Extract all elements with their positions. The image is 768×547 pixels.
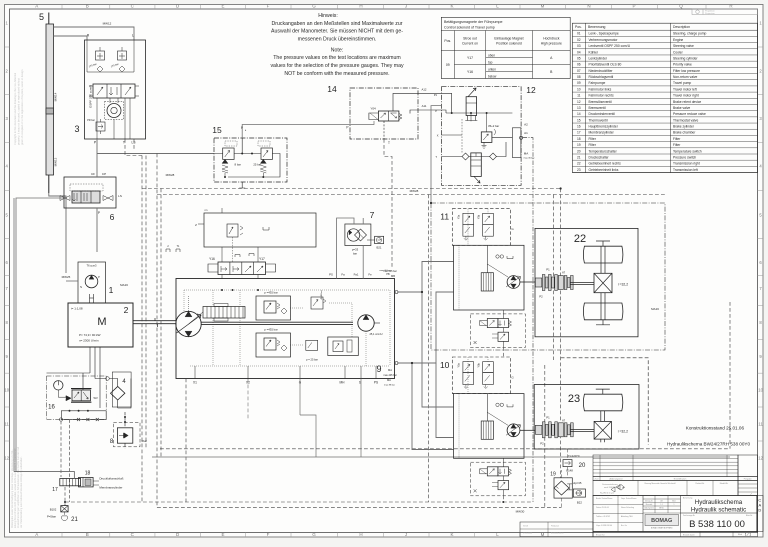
svg-text:Stroe out: Stroe out	[463, 37, 477, 41]
svg-text:Brake zylinder: Brake zylinder	[673, 125, 695, 129]
travel motor 10 main box	[454, 394, 525, 459]
engine tank lines	[90, 347, 100, 408]
svg-text:20: 20	[577, 149, 581, 153]
pressure regulator 35+2bar	[481, 132, 492, 143]
svg-text:MW12: MW12	[103, 22, 112, 26]
svg-text:19: 19	[577, 143, 581, 147]
svg-text:Y16: Y16	[209, 257, 215, 261]
small valve left of charge group	[306, 340, 318, 350]
svg-text:MA: MA	[388, 368, 392, 372]
svg-text:B102: B102	[50, 508, 57, 512]
transmission 22 box	[535, 228, 638, 336]
svg-text:max.40 bar: max.40 bar	[380, 269, 391, 272]
svg-text:P=5bar: P=5bar	[47, 515, 56, 519]
charge relief group	[328, 337, 359, 356]
svg-text:L: L	[132, 34, 134, 38]
pump control top box	[204, 213, 316, 247]
steering valve shock valves	[96, 51, 105, 60]
hand pump	[466, 97, 477, 116]
svg-text:MW30: MW30	[516, 510, 525, 514]
svg-text:11: 11	[5, 422, 10, 427]
svg-text:T=120°C: T=120°C	[568, 454, 581, 458]
svg-text:S: S	[80, 285, 82, 289]
pump internal dotted connections	[188, 296, 190, 311]
svg-text:T: T	[388, 141, 390, 145]
svg-text:P: P	[98, 275, 100, 279]
svg-text:02: 02	[577, 38, 581, 42]
comp12 wires	[442, 93, 513, 156]
brake cylinder 17	[60, 479, 81, 486]
title block bottom band	[593, 532, 758, 537]
dashed long horizontals bottom	[160, 448, 730, 450]
svg-text:Y04: Y04	[370, 107, 376, 111]
svg-text:CP: CP	[102, 172, 106, 176]
svg-text:Modell-Nr.: Modell-Nr.	[720, 482, 729, 485]
svg-text:Filter: Filter	[673, 137, 681, 141]
svg-text:PR bar: PR bar	[87, 119, 95, 122]
svg-text:15: 15	[212, 125, 222, 135]
svg-text:Cooler: Cooler	[673, 50, 684, 54]
svg-text:WV: WV	[94, 396, 98, 400]
Y04 spring	[399, 114, 402, 120]
dashed lines down from 16 to 17	[60, 421, 62, 477]
brake valve 13 of motor 11	[471, 314, 526, 348]
hydrostatic line A to motors	[398, 363, 454, 450]
svg-text:MH: MH	[340, 381, 346, 385]
svg-text:A11: A11	[422, 104, 427, 108]
svg-text:14: 14	[577, 112, 581, 116]
svg-text:Fa: Fa	[341, 273, 345, 277]
svg-text:11: 11	[577, 94, 581, 98]
svg-text:Y17: Y17	[467, 56, 473, 60]
svg-text:10: 10	[440, 360, 450, 370]
svg-text:Auswahl der Manometer. Sie müs: Auswahl der Manometer. Sie müssen NICHT …	[271, 29, 403, 35]
transmission 22 wheel bottom	[583, 303, 623, 320]
svg-text:Fahrpumpe: Fahrpumpe	[589, 81, 606, 85]
wire Pe riser to comp14	[242, 125, 370, 139]
small control valve	[311, 297, 323, 309]
svg-text:CAD-System: CAD-System	[644, 507, 654, 510]
svg-text:45/48 bar: 45/48 bar	[320, 290, 323, 300]
svg-text:Ersatz für: Ersatz für	[596, 533, 605, 536]
charge pump 1	[78, 262, 106, 303]
svg-text:10: 10	[577, 87, 581, 91]
svg-text:Datum 25.01.06: Datum 25.01.06	[596, 506, 609, 509]
svg-text:Druckangaben an den Meßstellen: Druckangaben an den Meßstellen sind Maxi…	[272, 21, 403, 27]
hydrostatic line B to motors	[398, 262, 454, 293]
cooler 4	[111, 386, 125, 400]
svg-text:27.01.2006: 27.01.2006	[523, 533, 532, 535]
svg-text:1:1: 1:1	[660, 504, 662, 506]
svg-text:A2: A2	[524, 122, 528, 126]
coupling ribs	[535, 425, 542, 434]
svg-text:p =435 bar: p =435 bar	[264, 328, 278, 332]
svg-text:Getriebeeinheit links: Getriebeeinheit links	[589, 168, 619, 172]
servo cylinder	[203, 307, 245, 319]
motor 10 internal dotted	[459, 357, 488, 458]
svg-text:Einbaulage Magnet: Einbaulage Magnet	[494, 37, 523, 41]
svg-text:Lenkzylinder: Lenkzylinder	[589, 56, 608, 60]
svg-text:property. It may not be used,: property. It may not be used, copied or …	[17, 78, 21, 145]
svg-text:top: top	[488, 61, 493, 65]
transmission 23 gear	[594, 421, 611, 439]
dashed verticals right of pump	[552, 195, 554, 361]
svg-text:11: 11	[440, 212, 449, 222]
thermostat valve 15 box	[214, 138, 287, 182]
svg-text:M: M	[97, 316, 106, 328]
svg-text:F: F	[267, 532, 270, 537]
svg-text:15: 15	[577, 118, 581, 122]
wire comp6 P down	[96, 208, 98, 252]
svg-text:17: 17	[52, 487, 58, 493]
coupling ribs	[535, 278, 542, 287]
svg-text:Membranzylinder: Membranzylinder	[589, 131, 615, 135]
svg-text:Abteilung TEH: Abteilung TEH	[621, 515, 633, 518]
svg-text:MA: MA	[387, 378, 391, 382]
svg-text:Brake valve: Brake valve	[673, 106, 690, 110]
svg-text:A: A	[35, 532, 38, 537]
svg-text:Masstab: Masstab	[646, 503, 652, 506]
travel motor 11 output shaft	[520, 281, 535, 283]
svg-text:i =32,2: i =32,2	[618, 429, 628, 433]
svg-text:Kühler: Kühler	[589, 50, 599, 54]
sensor B22	[573, 489, 585, 497]
svg-text:Current on: Current on	[462, 41, 478, 45]
relief valve B	[256, 333, 291, 357]
svg-text:values for the selection of th: values for the selection of the pressure…	[270, 63, 404, 69]
svg-text:Hydraulikschema BW24/27RH 538: Hydraulikschema BW24/27RH 538 00Y0	[667, 442, 750, 447]
svg-text:Temperature switch: Temperature switch	[673, 149, 702, 153]
svg-text:Lenkventil OSPF 250 com/U: Lenkventil OSPF 250 com/U	[589, 44, 631, 48]
svg-text:Bremslöseventil: Bremslöseventil	[589, 100, 613, 104]
Y17 solenoid	[266, 264, 276, 272]
charge pump circle	[358, 315, 374, 331]
svg-text:Travel motor left: Travel motor left	[673, 87, 697, 91]
pump control dashed pilots	[232, 237, 234, 262]
travel motor 11 cartridge valves	[463, 213, 474, 224]
svg-text:04: 04	[577, 50, 581, 54]
inter-section dashed connectors	[502, 348, 504, 358]
check valve diamonds	[97, 66, 103, 72]
svg-text:Druckschalter: Druckschalter	[589, 155, 610, 159]
steering directional valve	[93, 84, 135, 98]
svg-text:CF: CF	[91, 172, 95, 176]
thermo internal wires	[214, 154, 280, 178]
svg-text:Priority valve: Priority valve	[673, 63, 692, 67]
svg-text:Zeichnungs-Nr.: Zeichnungs-Nr.	[683, 515, 696, 517]
svg-text:F: F	[267, 4, 270, 9]
travel motor 10 cartridge valves	[463, 362, 474, 373]
wire P comp3 to comp6	[96, 139, 98, 177]
svg-text:der Patenterteilung oder Gebra: der Patenterteilung oder Gebrauchsmuster…	[20, 456, 23, 528]
svg-text:Y5b: Y5b	[477, 214, 480, 219]
transmission 23 axle	[600, 411, 602, 422]
svg-text:Y16: Y16	[467, 70, 473, 74]
svg-text:18: 18	[577, 137, 581, 141]
brake valve 16	[72, 390, 90, 401]
wire comp6 LS left	[16, 198, 75, 472]
brake chamber 18	[79, 478, 94, 487]
svg-text:A1: A1	[524, 131, 528, 135]
svg-text:35+2 bar: 35+2 bar	[488, 124, 499, 128]
accumulator	[471, 153, 482, 177]
svg-text:18: 18	[85, 471, 91, 477]
engine 2 box	[68, 303, 133, 347]
steering cylinder 5	[46, 24, 54, 175]
gauge link arrow	[58, 390, 71, 401]
svg-text:Urspr. B 538 018 00: Urspr. B 538 018 00	[596, 525, 612, 527]
transmission 22 gear	[594, 273, 612, 292]
dashed lines horizontal machine boundary	[142, 188, 561, 190]
shaft through pump	[201, 321, 353, 323]
svg-text:P2: P2	[539, 295, 543, 299]
travel motor 10 output shaft	[520, 429, 535, 431]
svg-text:7: 7	[370, 210, 375, 220]
svg-text:MA: MA	[524, 152, 529, 156]
svg-text:p =435 bar: p =435 bar	[264, 291, 278, 295]
svg-text:MA16: MA16	[651, 307, 659, 311]
svg-text:A12: A12	[422, 87, 427, 91]
svg-text:Thermoventil: Thermoventil	[589, 118, 608, 122]
svg-text:Getriebeeinheit rechts: Getriebeeinheit rechts	[589, 162, 622, 166]
svg-text:X1: X1	[193, 381, 197, 385]
svg-text:Thermostat valve: Thermostat valve	[673, 118, 698, 122]
svg-text:6: 6	[110, 212, 115, 222]
svg-text:17: 17	[577, 131, 581, 135]
manifold under 16	[61, 411, 106, 420]
svg-text:Filter: Filter	[589, 137, 597, 141]
pump drive shaft	[89, 294, 91, 303]
svg-text:P: P	[346, 126, 348, 130]
travel motor 11 gauge ports	[496, 255, 499, 258]
travel motor 11 rotary group	[507, 276, 520, 289]
svg-text:23: 23	[577, 168, 581, 172]
svg-text:25 bar: 25 bar	[253, 163, 261, 167]
svg-text:Temperaturschalter: Temperaturschalter	[589, 149, 618, 153]
svg-text:08: 08	[577, 75, 581, 79]
filter 7 box	[345, 224, 371, 246]
revision header row	[593, 477, 738, 481]
svg-text:12: 12	[4, 456, 9, 461]
svg-text:MA16: MA16	[120, 283, 128, 287]
svg-text:1: 1	[674, 504, 675, 506]
wire to thermo valve	[97, 153, 214, 155]
svg-text:Rückschlagventil: Rückschlagventil	[589, 75, 614, 79]
engine output shaft to travel pump	[133, 320, 176, 322]
brake release device 12 box	[442, 87, 522, 186]
dashed vertical x390	[384, 139, 392, 268]
svg-text:X: X	[437, 134, 439, 138]
svg-text:i= 1:1,08: i= 1:1,08	[71, 307, 83, 311]
svg-text:Travel motor right: Travel motor right	[673, 94, 699, 98]
relief valve A	[256, 296, 291, 320]
gauge circle 16	[54, 381, 63, 390]
travel motor 10 speed sensor	[481, 421, 493, 439]
svg-text:09: 09	[577, 81, 581, 85]
svg-text:P1: P1	[546, 268, 550, 272]
svg-text:N: N	[587, 4, 590, 9]
svg-text:P: P	[435, 109, 437, 113]
svg-text:Ersetzt durch: Ersetzt durch	[683, 533, 695, 536]
svg-text:09: 09	[446, 63, 450, 67]
svg-text:Pos.: Pos.	[575, 25, 582, 29]
svg-text:Gepr. Datum/Name: Gepr. Datum/Name	[621, 497, 636, 500]
svg-text:H: H	[359, 4, 362, 9]
steering valve 3 (OSPF 250) box	[85, 40, 146, 139]
svg-text:Membranzylinder: Membranzylinder	[99, 486, 122, 490]
svg-text:Konstruktionsstand 25.01.06: Konstruktionsstand 25.01.06	[686, 426, 745, 431]
comp12 right ports	[512, 128, 521, 158]
transmission 23 wheel	[583, 394, 622, 411]
svg-text:i =32,2: i =32,2	[618, 283, 628, 287]
small cell left of title block	[520, 522, 593, 537]
svg-text:Rohteil-Nr.: Rohteil-Nr.	[696, 482, 705, 485]
cooler side lines	[112, 372, 131, 407]
wires filter 7	[337, 218, 354, 279]
approval band	[593, 481, 738, 496]
svg-text:25,1 ccm/U: 25,1 ccm/U	[369, 332, 382, 336]
parts list table	[572, 23, 757, 172]
dashed line bundle vertical left	[141, 156, 143, 503]
svg-text:1: 1	[109, 285, 114, 295]
svg-text:K: K	[450, 4, 453, 9]
check diamonds comp12	[462, 153, 469, 160]
svg-text:8 bar: 8 bar	[235, 163, 241, 167]
motor 11 internal dotted	[459, 209, 488, 310]
svg-text:D: D	[758, 508, 761, 513]
svg-text:Druckminderventil: Druckminderventil	[589, 112, 616, 116]
svg-text:grant of occupied or to the re: grant of occupied or to the registration…	[20, 69, 24, 145]
svg-text:M: M	[541, 4, 545, 9]
svg-text:G: G	[312, 532, 316, 537]
svg-text:1 / 1: 1 / 1	[745, 533, 751, 537]
svg-text:Hydraulik schematic: Hydraulik schematic	[691, 507, 746, 514]
filter 19 lines	[561, 470, 563, 478]
svg-text:Plotdatum: Plotdatum	[551, 525, 560, 528]
svg-text:12: 12	[577, 100, 581, 104]
master brake valve 16 boundary	[47, 376, 107, 420]
transmission 22 wheel top	[583, 246, 623, 263]
main pump rotary group	[176, 311, 201, 336]
svg-text:The pressure values on the tes: The pressure values on the test location…	[273, 55, 400, 61]
projection symbol cell	[692, 9, 758, 15]
svg-text:12: 12	[526, 85, 536, 95]
svg-text:Y17: Y17	[259, 257, 265, 261]
svg-text:Prioritätsventil OLS 80: Prioritätsventil OLS 80	[589, 63, 622, 67]
BOMAG logo	[645, 515, 679, 526]
svg-text:B 538 110 00: B 538 110 00	[689, 519, 745, 530]
svg-text:13: 13	[577, 106, 581, 110]
svg-text:03: 03	[577, 44, 581, 48]
dashed pilot boxes comp15	[225, 141, 237, 146]
svg-text:Druckluftanschluß: Druckluftanschluß	[99, 477, 123, 481]
svg-text:10: 10	[758, 388, 763, 393]
priority valve spool	[72, 191, 100, 203]
svg-text:Freimasstoleranz: Freimasstoleranz	[602, 483, 617, 486]
pressure switch 21 (B102)	[61, 506, 68, 512]
svg-text:Projektion: Projektion	[705, 10, 716, 13]
svg-text:MW14: MW14	[54, 92, 58, 101]
svg-text:PB: PB	[386, 273, 390, 276]
wire to brake cylinder	[14, 472, 74, 479]
svg-text:Steering cylinder: Steering cylinder	[673, 56, 698, 60]
brake reduce valve of motor 10	[498, 481, 509, 490]
wire cylinder-R to valve port R	[54, 36, 88, 40]
machine boundary around motor 11 + transmission 22	[431, 203, 665, 350]
svg-text:Filter low pressure: Filter low pressure	[673, 69, 700, 73]
svg-text:ME10: ME10	[659, 508, 663, 510]
svg-text:21: 21	[577, 155, 581, 159]
svg-text:10: 10	[4, 388, 9, 393]
svg-text:Transmission left: Transmission left	[673, 168, 698, 172]
svg-text:22: 22	[577, 162, 581, 166]
sensor B21	[375, 236, 384, 243]
svg-text:Vertell: Vertell	[523, 525, 529, 528]
svg-text:Steering valve: Steering valve	[673, 44, 694, 48]
svg-text:6bar: 6bar	[142, 439, 148, 443]
svg-text:P: P	[98, 211, 100, 215]
svg-text:Q: Q	[679, 4, 683, 9]
svg-text:unten: unten	[488, 68, 496, 72]
travel motor 11 solenoid box	[452, 209, 510, 246]
gerotor metering unit	[107, 104, 121, 118]
svg-text:PS: PS	[329, 273, 333, 277]
svg-text:Zchngs-Gr.: Zchngs-Gr.	[645, 500, 654, 503]
main title block	[593, 496, 758, 532]
transmission 23 box	[534, 385, 639, 450]
svg-text:Zust: Zust	[595, 478, 599, 481]
svg-text:oben: oben	[488, 54, 495, 58]
dashed T-line from comp3	[125, 139, 142, 156]
svg-text:Blatt-Nr.: Blatt-Nr.	[746, 514, 753, 517]
travel motor 10 solenoid box	[452, 357, 510, 394]
svg-text:B: B	[86, 532, 89, 537]
svg-text:Bearb. Datum/Name: Bearb. Datum/Name	[596, 497, 612, 500]
svg-text:07: 07	[577, 69, 581, 73]
svg-text:Hauptbremszylinder: Hauptbremszylinder	[589, 125, 619, 129]
brake valve 13 of motor 10	[471, 462, 526, 496]
svg-text:Brake chamber: Brake chamber	[673, 131, 696, 135]
svg-text:01: 01	[577, 32, 581, 36]
CAD column	[757, 496, 764, 532]
svg-text:Niederdruckfilter: Niederdruckfilter	[589, 69, 614, 73]
svg-text:A: A	[35, 4, 38, 9]
svg-text:Pressure switch: Pressure switch	[673, 155, 696, 159]
svg-text:AT: AT	[562, 271, 566, 275]
svg-text:Y5b: Y5b	[477, 363, 480, 368]
svg-text:Ra-Werte in µm: Ra-Werte in µm	[600, 492, 614, 495]
svg-text:J: J	[405, 4, 407, 9]
svg-text:B: B	[86, 4, 89, 9]
machine boundary around motor 10 + transmission 23	[561, 358, 649, 445]
svg-text:MW28: MW28	[410, 189, 419, 193]
svg-text:below: below	[488, 75, 497, 79]
svg-text:BOMAG GMBH BOPPARD: BOMAG GMBH BOPPARD	[651, 527, 673, 530]
wire rod bottom to supply	[49, 193, 66, 252]
title block revision table	[593, 455, 738, 477]
travel pump 9 main box	[176, 279, 395, 379]
svg-text:Blatt: Blatt	[738, 533, 742, 536]
svg-text:Steering, charge pump: Steering, charge pump	[673, 32, 707, 36]
svg-text:n= 2300 U/min: n= 2300 U/min	[79, 339, 99, 343]
svg-text:E: E	[221, 4, 224, 9]
svg-text:Description: Description	[673, 25, 690, 29]
svg-text:9: 9	[376, 364, 381, 374]
thermo springs	[222, 159, 228, 163]
svg-text:Filter: Filter	[589, 143, 597, 147]
Y16 solenoid	[208, 264, 218, 272]
svg-text:P: P	[632, 4, 635, 9]
